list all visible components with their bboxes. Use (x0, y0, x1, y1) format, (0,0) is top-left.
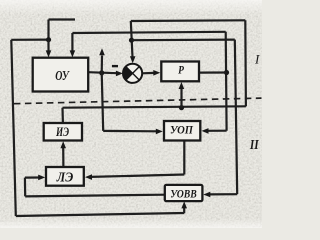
svg-text:ИЭ: ИЭ (55, 125, 69, 139)
node junction R output (224, 70, 229, 75)
wire arrow into R bottom (180, 88, 182, 108)
wire arrow into OU input 1 (47, 40, 49, 52)
dashed separator line (14, 98, 262, 104)
wire middle horizontal feedback (63, 106, 246, 107)
block OU (33, 58, 88, 92)
minus sign (112, 65, 118, 67)
wire top stub (49, 18, 76, 20)
node junction above OU (46, 37, 51, 42)
wire vertical to UOVV (235, 40, 237, 195)
node junction OU output (99, 70, 104, 75)
wire OU output (88, 72, 117, 73)
wire UOP bottom to LE (183, 141, 185, 175)
wire R output (199, 71, 227, 73)
wire vertical far right I (244, 20, 247, 106)
wire arrow into OU input 2 (71, 33, 73, 51)
wire summing output to R (142, 72, 154, 75)
block UOVV (165, 185, 203, 201)
wire vertical up arrow (101, 56, 104, 73)
wire UOVV output to LE (25, 195, 165, 197)
wire arrow into UOVV right (210, 193, 238, 195)
wire arrow LE to IE (62, 147, 64, 167)
block LE (46, 167, 84, 186)
svg-text:УОП: УОП (170, 123, 194, 137)
svg-text:I: I (254, 52, 260, 67)
wire arrow into UOP left (103, 130, 156, 133)
wire horizontal to left border (11, 38, 48, 40)
wire vertical into summing junction (131, 21, 133, 57)
block UOP (164, 121, 200, 141)
wire IE output stem (61, 108, 64, 123)
node junction R bottom feed (179, 105, 184, 110)
block R (161, 62, 199, 82)
wire feedback line 3 (132, 38, 235, 41)
wire feedback line 1 top (131, 19, 246, 22)
svg-text:ЛЭ: ЛЭ (56, 170, 74, 185)
wire arrow into UOP right (208, 130, 227, 132)
summing junction (123, 64, 142, 83)
wire vertical above OU junction (47, 20, 49, 40)
svg-text:ОУ: ОУ (55, 69, 70, 84)
wire arrow into UOVV bottom (183, 206, 185, 214)
svg-text:II: II (249, 138, 259, 153)
wire vertical down to UOP (102, 73, 104, 131)
wire vertical right of R (225, 32, 228, 131)
wire left border feedback (11, 40, 16, 216)
svg-text:Р: Р (178, 65, 185, 77)
block IE (44, 123, 82, 141)
wire horizontal OU input 2 from right (72, 32, 225, 33)
svg-text:УОВВ: УОВВ (170, 187, 197, 201)
wire bottom feedback (16, 213, 184, 216)
node junction summing feed (129, 38, 134, 43)
